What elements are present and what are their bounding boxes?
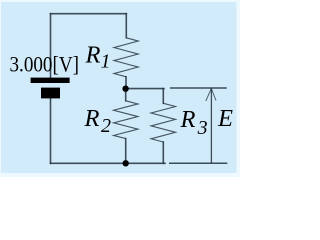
- resistor R1: [114, 38, 138, 77]
- voltage arrow E head: [206, 89, 216, 101]
- wire middle rail node to R3: [126, 88, 164, 90]
- battery positive plate: [31, 78, 70, 83]
- wire left vertical lower: [50, 98, 52, 163]
- svg-text:3.000[V]: 3.000[V]: [10, 51, 80, 76]
- wire left vertical upper: [50, 14, 52, 78]
- resistor R3: [151, 103, 175, 142]
- node junction bottom: [123, 160, 129, 166]
- wire E indicator bottom segment: [169, 162, 227, 164]
- svg-text:E: E: [217, 105, 233, 132]
- wire bottom rail: [51, 162, 166, 164]
- wire top rail: [51, 13, 127, 15]
- wire R2 top stub: [125, 89, 127, 101]
- wire R1 bottom stub: [125, 77, 127, 89]
- wire R2 bottom stub: [125, 139, 127, 164]
- battery negative plate: [41, 88, 60, 99]
- wire R3 top stub: [162, 89, 164, 104]
- node junction top: [122, 86, 128, 92]
- resistor R2: [114, 101, 138, 139]
- wire R3 bottom stub: [162, 142, 164, 163]
- wire R1 top stub: [125, 14, 127, 38]
- voltage arrow E shaft: [210, 88, 212, 163]
- wire E indicator top segment: [170, 87, 227, 89]
